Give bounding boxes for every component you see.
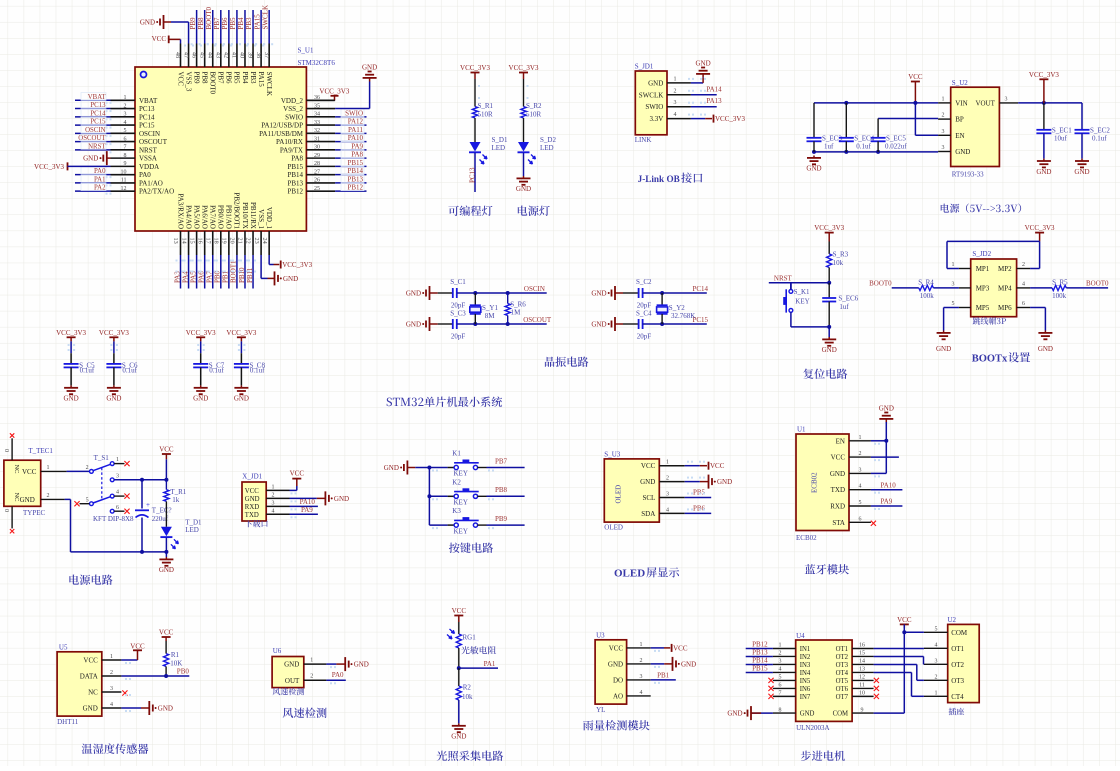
svg-text:PB0/AO: PB0/AO xyxy=(217,205,225,229)
svg-text:VCC: VCC xyxy=(908,73,923,81)
U1 pin 48 (VCC) top stub xyxy=(180,44,182,68)
svg-text:KEY: KEY xyxy=(454,470,468,478)
svg-text:GND: GND xyxy=(1038,345,1053,353)
section title: STM32 MCU minimal system xyxy=(387,397,503,408)
svg-text:GND: GND xyxy=(83,155,98,163)
svg-text:9: 9 xyxy=(124,161,127,167)
svg-text:VCC_3V3: VCC_3V3 xyxy=(226,329,256,337)
power GND at U1 pin 23 xyxy=(260,255,262,278)
svg-text:3: 3 xyxy=(110,686,113,692)
svg-text:PB7: PB7 xyxy=(213,17,221,30)
U3 pin4 AO stub xyxy=(654,650,656,652)
svg-text:VCC_3V3: VCC_3V3 xyxy=(34,163,64,171)
svg-text:5: 5 xyxy=(124,128,127,134)
svg-text:1M: 1M xyxy=(511,309,521,317)
power VCC at U3 pin1 xyxy=(651,647,664,649)
svg-text:23: 23 xyxy=(253,238,260,244)
svg-text:VIN: VIN xyxy=(955,99,967,107)
svg-text:OT3: OT3 xyxy=(836,662,849,669)
svg-text:1: 1 xyxy=(779,643,782,649)
wire net PA4 bottom xyxy=(188,255,190,289)
svg-text:S_C4: S_C4 xyxy=(636,310,652,318)
svg-text:VCC: VCC xyxy=(83,657,98,665)
wire net PC13 left xyxy=(75,108,111,110)
svg-text:S_C2: S_C2 xyxy=(636,278,652,286)
svg-text:GND: GND xyxy=(640,478,655,486)
svg-text:PB13: PB13 xyxy=(287,179,303,187)
svg-text:SCL: SCL xyxy=(642,494,655,502)
svg-text:MP5: MP5 xyxy=(976,304,990,312)
svg-text:OT5: OT5 xyxy=(836,678,849,685)
svg-text:OT1: OT1 xyxy=(951,645,964,653)
svg-text:0.1uf: 0.1uf xyxy=(122,367,137,375)
svg-text:14: 14 xyxy=(859,659,865,665)
svg-text:PB11/RX: PB11/RX xyxy=(249,202,257,229)
svg-text:TXD: TXD xyxy=(831,486,845,494)
svg-text:11: 11 xyxy=(121,178,127,184)
svg-text:X_JD1: X_JD1 xyxy=(242,473,262,481)
svg-text:RXD: RXD xyxy=(830,503,845,511)
connector S_JD2 jumper body xyxy=(971,259,1017,317)
wire OT2 to socket xyxy=(874,655,924,657)
svg-text:MP3: MP3 xyxy=(976,284,990,292)
svg-text:GND: GND xyxy=(193,395,208,403)
U1 pin 20 (PB2/BOOT1) bottom stub xyxy=(236,231,238,255)
svg-text:PA1: PA1 xyxy=(484,660,496,668)
svg-text:1: 1 xyxy=(640,642,643,648)
power VCC at U5 pin1 xyxy=(121,659,137,661)
U4 pin 10 no connect xyxy=(874,694,879,699)
svg-text:OT6: OT6 xyxy=(836,686,849,693)
svg-text:VDDA: VDDA xyxy=(139,163,159,171)
svg-text:PC13: PC13 xyxy=(468,167,476,183)
svg-text:PA3/RX/AO: PA3/RX/AO xyxy=(176,193,184,229)
svg-text:GND: GND xyxy=(384,464,399,472)
svg-text:GND: GND xyxy=(64,395,79,403)
title: power 5V to 3.3V xyxy=(941,204,1021,213)
U4 pin 11 no connect xyxy=(874,686,879,691)
svg-text:NC: NC xyxy=(88,689,98,697)
svg-text:6: 6 xyxy=(116,505,119,511)
svg-text:2: 2 xyxy=(779,651,782,657)
wire net VBAT left xyxy=(75,99,111,101)
svg-text:2: 2 xyxy=(674,88,677,94)
module U3 rain body xyxy=(595,640,627,704)
connector T_TEC1 TYPEC body xyxy=(4,460,41,506)
wire net PB9 xyxy=(487,524,525,526)
wire net PA9 xyxy=(290,513,318,515)
svg-text:1: 1 xyxy=(942,96,945,102)
title: wind speed detection xyxy=(283,708,327,719)
svg-text:U3: U3 xyxy=(596,631,605,639)
capacitor S_C4 20pF xyxy=(623,323,639,325)
key K2 xyxy=(429,495,447,497)
wire EN tie to VIN xyxy=(914,103,916,135)
capacitor S_C7 0.1uf xyxy=(200,341,202,353)
svg-text:IN4: IN4 xyxy=(800,670,811,677)
svg-text:LINK: LINK xyxy=(635,136,652,144)
svg-text:6: 6 xyxy=(1022,301,1025,307)
wire net PB15 right xyxy=(335,165,366,167)
svg-text:VDD_2: VDD_2 xyxy=(281,97,304,105)
U1 pin 45 (PB8) top stub xyxy=(204,44,206,68)
ground below S_D2 xyxy=(523,153,525,176)
svg-text:37: 37 xyxy=(263,52,269,58)
power GND at U5 pin4 xyxy=(121,707,141,709)
U1 pin 42 (PB6) top stub xyxy=(228,44,230,68)
U1 pin 33 (PA12/USB/DP) right stub xyxy=(306,124,335,126)
wire OT4 to socket xyxy=(874,671,912,673)
module U5 DHT11 body xyxy=(57,652,102,716)
svg-text:PB5: PB5 xyxy=(233,72,241,85)
svg-text:3: 3 xyxy=(666,492,669,498)
U1 pin 1 (VBAT) left stub xyxy=(111,99,136,101)
svg-text:OSCOUT: OSCOUT xyxy=(523,316,552,324)
svg-text:GND: GND xyxy=(806,165,821,173)
svg-text:17: 17 xyxy=(204,238,211,244)
wire BP to S_EC5 xyxy=(878,118,938,120)
wire net PB8 top xyxy=(204,10,206,44)
svg-text:GND: GND xyxy=(234,395,249,403)
svg-text:3: 3 xyxy=(942,129,945,135)
wire net PB11 bottom xyxy=(252,255,254,289)
svg-text:BOOTx: BOOTx xyxy=(972,354,1008,365)
ground below S_EC3 xyxy=(813,156,815,158)
wire net PA0 xyxy=(326,679,345,681)
svg-text:6: 6 xyxy=(779,683,782,689)
svg-text:BOOT0: BOOT0 xyxy=(869,279,892,287)
svg-text:SWCLK: SWCLK xyxy=(261,5,269,30)
svg-text:S_U3: S_U3 xyxy=(604,450,620,458)
U1 pin 43 (PB7) top stub xyxy=(220,44,222,68)
svg-text:2: 2 xyxy=(47,493,50,499)
svg-text:5: 5 xyxy=(952,301,955,307)
wire net NRST left xyxy=(75,149,111,151)
wire net PA9 right xyxy=(335,149,366,151)
svg-text:14: 14 xyxy=(180,238,187,244)
svg-text:20pF: 20pF xyxy=(637,302,652,310)
U1 pin 39 (PB3) top stub xyxy=(252,44,254,68)
svg-text:VSS_2: VSS_2 xyxy=(283,105,303,113)
svg-text:IN1: IN1 xyxy=(800,646,811,653)
svg-text:IN6: IN6 xyxy=(800,686,811,693)
wire OT1 to socket xyxy=(874,648,924,650)
svg-text:KEY: KEY xyxy=(454,499,468,507)
svg-text:PA5: PA5 xyxy=(189,271,197,283)
svg-text:U6: U6 xyxy=(273,647,282,655)
svg-text:4: 4 xyxy=(859,484,862,490)
svg-text:VCC: VCC xyxy=(159,629,174,637)
svg-text:1: 1 xyxy=(666,460,669,466)
svg-text:VCC: VCC xyxy=(22,468,37,476)
U1 pin 2 (PC13) left stub xyxy=(111,108,136,110)
svg-text:4: 4 xyxy=(272,509,275,515)
svg-text:GND: GND xyxy=(406,321,421,329)
wire net PB6 top xyxy=(228,10,230,44)
svg-text:33: 33 xyxy=(314,120,320,126)
wire net PB4 top xyxy=(244,10,246,44)
svg-text:BOOT0: BOOT0 xyxy=(205,6,213,29)
svg-text:GND: GND xyxy=(822,346,837,354)
svg-text:S_EC5: S_EC5 xyxy=(886,135,906,143)
wire net PB13 right xyxy=(335,182,366,184)
svg-text:2: 2 xyxy=(640,658,643,664)
svg-text:GND: GND xyxy=(591,321,606,329)
svg-text:PB8: PB8 xyxy=(197,17,205,30)
svg-text:1uf: 1uf xyxy=(839,303,849,311)
U1 pin 10 (PA0) left stub xyxy=(111,174,136,176)
svg-text:46: 46 xyxy=(190,52,196,58)
svg-text:GND: GND xyxy=(955,148,970,156)
module U6 body xyxy=(272,657,304,688)
svg-text:DO: DO xyxy=(613,676,623,684)
svg-text:PB9: PB9 xyxy=(192,72,200,85)
U1 pin 12 (PA2/TX/AO) left stub xyxy=(111,190,136,192)
svg-text:TXD: TXD xyxy=(245,512,259,519)
wire GND rail xyxy=(814,151,938,153)
svg-text:S_EC1: S_EC1 xyxy=(1052,127,1072,135)
svg-text:LED: LED xyxy=(185,526,199,534)
wire OT3 to socket xyxy=(874,663,917,665)
svg-text:PB14: PB14 xyxy=(752,657,768,665)
switch link dashed xyxy=(101,468,103,501)
junction below S_EC6 xyxy=(827,325,831,329)
svg-text:S_JD1: S_JD1 xyxy=(635,63,654,71)
svg-text:VCC: VCC xyxy=(641,462,656,470)
svg-text:T_S1: T_S1 xyxy=(94,454,110,462)
svg-text:PB8: PB8 xyxy=(200,72,208,85)
svg-text:4: 4 xyxy=(640,690,643,696)
wire net PB10 bottom xyxy=(244,255,246,289)
svg-text:10: 10 xyxy=(859,691,865,697)
svg-text:1: 1 xyxy=(272,485,275,491)
svg-text:3: 3 xyxy=(952,281,955,287)
key S_K1 xyxy=(790,283,792,290)
ground below S_EC1 xyxy=(1043,159,1045,161)
U1 pin 26 (PB13) right stub xyxy=(306,182,335,184)
U4 pin 6 no connect xyxy=(768,686,773,691)
resistor S_R1 510R xyxy=(474,79,476,107)
U1 pin 19 (PB1/AO) bottom stub xyxy=(228,231,230,255)
svg-text:34: 34 xyxy=(314,112,320,118)
svg-text:PA12/USB/DP: PA12/USB/DP xyxy=(261,122,303,130)
svg-text:2: 2 xyxy=(124,103,127,109)
resistor S_R5 100k xyxy=(1030,287,1052,289)
svg-text:32.768K: 32.768K xyxy=(671,312,695,320)
title: rain detection module xyxy=(583,720,650,731)
capacitor T_EC1 220uf xyxy=(141,480,143,509)
svg-text:S_D1: S_D1 xyxy=(492,136,508,144)
svg-text:PB0: PB0 xyxy=(177,668,190,676)
svg-text:BOOT0: BOOT0 xyxy=(1086,279,1109,287)
svg-text:GND: GND xyxy=(800,711,815,718)
svg-text:2: 2 xyxy=(935,674,938,680)
svg-text:41: 41 xyxy=(231,52,237,58)
svg-text:YL: YL xyxy=(596,706,605,714)
T_S1 pin1 stub nc xyxy=(114,463,124,465)
svg-text:T_EC?: T_EC? xyxy=(152,507,172,515)
svg-text:1: 1 xyxy=(116,457,119,463)
svg-text:+: + xyxy=(146,501,150,509)
label socket xyxy=(949,708,965,716)
svg-text:3: 3 xyxy=(935,658,938,664)
wire VOUT rail xyxy=(1018,102,1082,104)
wire net PA5 bottom xyxy=(196,255,198,289)
module S_U3 OLED body xyxy=(604,459,659,522)
svg-text:VCC_3V3: VCC_3V3 xyxy=(1029,71,1059,79)
svg-text:PA6: PA6 xyxy=(197,271,205,283)
svg-text:12: 12 xyxy=(859,675,865,681)
title: power circuit xyxy=(69,575,112,585)
svg-text:PA8: PA8 xyxy=(291,155,303,163)
svg-text:PA9: PA9 xyxy=(881,498,893,506)
svg-text:PC14: PC14 xyxy=(693,285,709,293)
svg-text:9: 9 xyxy=(861,707,864,713)
U1 pin 35 (VSS_2) right stub xyxy=(306,108,335,110)
svg-text:VCC: VCC xyxy=(897,616,912,624)
svg-text:PA3: PA3 xyxy=(173,271,181,283)
svg-text:4: 4 xyxy=(116,490,119,496)
capacitor S_EC6 1uf xyxy=(828,283,830,298)
svg-text:PB12: PB12 xyxy=(752,641,768,649)
capacitor S_C8 0.1uf xyxy=(240,341,242,353)
U4 pin 5 no connect xyxy=(768,678,773,683)
svg-text:30: 30 xyxy=(314,145,320,151)
svg-text:PB15: PB15 xyxy=(752,665,768,673)
svg-text:6: 6 xyxy=(859,516,862,522)
svg-text:PC14: PC14 xyxy=(139,113,155,121)
svg-text:VCC_3V3: VCC_3V3 xyxy=(319,88,349,96)
U1 pin 7 (NRST) left stub xyxy=(111,149,136,151)
svg-text:GND: GND xyxy=(334,495,349,503)
svg-text:PB13: PB13 xyxy=(752,649,768,657)
ground below S_C8 xyxy=(240,385,242,387)
svg-text:16: 16 xyxy=(859,643,865,649)
svg-text:3: 3 xyxy=(116,473,119,479)
wire pin1 to GND xyxy=(691,82,703,84)
wire net PA3 bottom xyxy=(180,255,182,289)
U1 pin 5 (OSCIN) left stub xyxy=(111,132,136,134)
U1 pin 32 (PA11/USB/DM) right stub xyxy=(306,132,335,134)
svg-text:44: 44 xyxy=(206,52,212,58)
svg-text:25: 25 xyxy=(314,186,320,192)
svg-text:PB9: PB9 xyxy=(495,515,508,523)
svg-text:1: 1 xyxy=(674,76,677,82)
U1 pin 34 (SWIO) right stub xyxy=(306,116,335,118)
wire net OSCOUT left xyxy=(75,141,111,143)
svg-text:RT9193-33: RT9193-33 xyxy=(952,171,984,179)
svg-text:OUT: OUT xyxy=(285,677,300,685)
svg-text:40: 40 xyxy=(239,52,245,58)
svg-text:S_R4: S_R4 xyxy=(918,278,934,286)
wire VCC_3V3 to pins 1 and 2 xyxy=(947,240,1040,242)
svg-text:RXD: RXD xyxy=(245,504,259,511)
svg-text:LED: LED xyxy=(540,144,554,152)
svg-text:LED: LED xyxy=(492,144,506,152)
svg-text:J-Link OB: J-Link OB xyxy=(638,174,680,184)
svg-text:VCC: VCC xyxy=(710,462,725,470)
svg-text:GND: GND xyxy=(696,60,711,68)
svg-text:27: 27 xyxy=(314,169,320,175)
wire net PC14 left xyxy=(75,116,111,118)
wire net PB9 top xyxy=(196,10,198,44)
svg-text:S_C1: S_C1 xyxy=(450,278,466,286)
svg-text:R2: R2 xyxy=(463,684,472,692)
wire net PB6 xyxy=(685,512,712,514)
resistor R1 10K xyxy=(165,641,167,654)
svg-text:NC: NC xyxy=(13,465,20,474)
svg-text:PA10/RX: PA10/RX xyxy=(276,138,303,146)
svg-text:3: 3 xyxy=(272,501,275,507)
svg-text:OSCOUT: OSCOUT xyxy=(139,138,168,146)
wire net SWIO right xyxy=(335,116,366,118)
svg-text:3: 3 xyxy=(942,145,945,151)
svg-text:31: 31 xyxy=(314,136,320,142)
svg-text:28: 28 xyxy=(314,161,320,167)
crystal S_Y2 32.768K xyxy=(661,293,663,305)
wire net PA1 xyxy=(457,666,461,670)
label wind detect small xyxy=(273,688,304,696)
svg-text:4: 4 xyxy=(935,642,938,648)
U1 pin 6 (OSCOUT) left stub xyxy=(111,141,136,143)
svg-text:1: 1 xyxy=(124,95,127,101)
svg-text:IN7: IN7 xyxy=(800,694,811,701)
key K3 xyxy=(429,524,447,526)
U1 STA no connect xyxy=(871,521,876,526)
svg-text:S_R2: S_R2 xyxy=(526,102,542,110)
svg-text:1k: 1k xyxy=(172,496,180,504)
wire net PB5 xyxy=(685,497,712,499)
wire net PA11 right xyxy=(335,132,366,134)
svg-text:20pF: 20pF xyxy=(451,333,466,341)
svg-text:VCC: VCC xyxy=(152,35,167,43)
svg-text:PA9/TX: PA9/TX xyxy=(280,146,303,154)
svg-text:GND: GND xyxy=(140,19,155,27)
capacitor S_C2 20pF xyxy=(623,292,639,294)
U1 pin 4 (PC15) left stub xyxy=(111,124,136,126)
svg-text:PB3: PB3 xyxy=(249,72,257,85)
svg-text:S_JD2: S_JD2 xyxy=(972,250,991,258)
svg-text:2: 2 xyxy=(859,451,862,457)
svg-text:100k: 100k xyxy=(920,292,935,300)
svg-text:19: 19 xyxy=(221,238,228,244)
svg-text:OT2: OT2 xyxy=(951,661,964,669)
svg-text:11: 11 xyxy=(859,683,865,689)
svg-text:ECB02: ECB02 xyxy=(811,472,819,493)
svg-text:S_EC6: S_EC6 xyxy=(838,295,858,303)
svg-text:35: 35 xyxy=(314,103,320,109)
svg-text:2: 2 xyxy=(86,465,89,471)
wire net PB0 bottom xyxy=(220,255,222,289)
svg-text:8: 8 xyxy=(779,707,782,713)
svg-text:GND: GND xyxy=(20,496,35,504)
svg-text:DHT11: DHT11 xyxy=(57,718,79,726)
svg-text:PC13: PC13 xyxy=(139,105,155,113)
svg-text:GND: GND xyxy=(406,290,421,298)
wire net PA10 right xyxy=(335,141,366,143)
svg-text:3: 3 xyxy=(779,659,782,665)
svg-text:GND: GND xyxy=(451,733,466,741)
wire VCC stub xyxy=(871,456,899,458)
resistor S_R6 1M xyxy=(507,293,509,304)
title: stepper motor xyxy=(801,751,845,762)
svg-text:SWCLK: SWCLK xyxy=(639,91,664,99)
svg-text:21: 21 xyxy=(237,238,244,244)
connector X_JD1 body xyxy=(242,482,266,521)
title: light collection circuit xyxy=(437,751,504,761)
wire net PA6 bottom xyxy=(204,255,206,289)
svg-text:PB7: PB7 xyxy=(495,457,508,465)
